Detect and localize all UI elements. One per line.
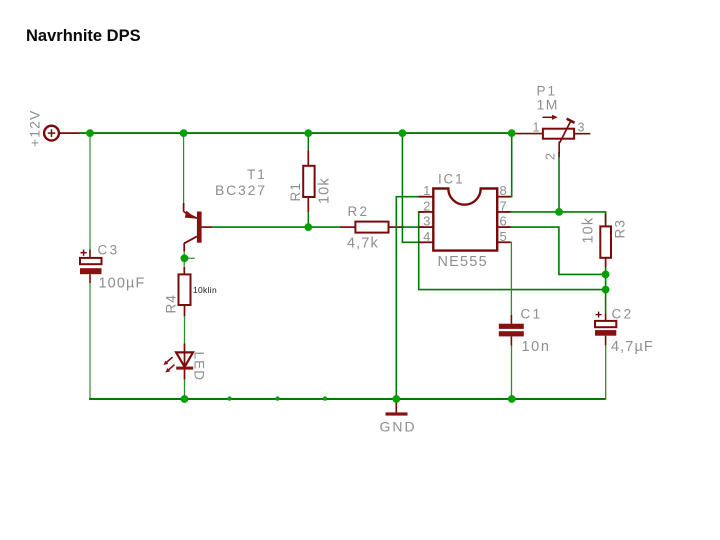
junction base row at R1 <box>304 223 312 231</box>
supply +12V symbol <box>44 126 59 141</box>
svg-text:C3: C3 <box>98 243 120 258</box>
svg-text:LED: LED <box>192 352 207 382</box>
junction bottom rail small a <box>227 396 231 400</box>
C3 pin upper <box>89 250 91 258</box>
wire R3 to node <box>605 267 607 274</box>
svg-text:C2: C2 <box>612 307 634 322</box>
svg-text:1: 1 <box>423 183 431 198</box>
wire C1 to bottom rail <box>511 345 513 399</box>
wire R2 to pin3 <box>404 226 425 228</box>
C2 bottom pin <box>605 336 607 346</box>
wire pot wiper to pin7 row <box>558 152 560 212</box>
wire collector to R4 <box>183 252 185 267</box>
IC1 pin 6 stub <box>497 226 510 228</box>
capacitor C1 <box>499 324 524 337</box>
resistor R1 <box>303 166 314 197</box>
C2 top pin <box>605 314 607 321</box>
svg-text:R4: R4 <box>164 294 179 313</box>
R4 upper pin <box>183 267 185 275</box>
diode LED <box>163 352 193 372</box>
svg-text:10k: 10k <box>581 217 597 244</box>
op IC1 NE555 body <box>433 189 497 251</box>
junction collector node <box>181 254 189 262</box>
junction bottom rail at LED <box>181 395 189 403</box>
R1 lower pin <box>307 197 309 212</box>
svg-text:5: 5 <box>500 229 508 244</box>
junction top rail at R1 <box>304 129 312 137</box>
T1 base pin <box>202 226 212 228</box>
wire node to C2 <box>605 274 607 314</box>
junction bottom rail at GND <box>392 395 400 403</box>
junction bottom rail at C1 <box>508 395 516 403</box>
svg-text:2: 2 <box>544 152 558 160</box>
wire stub at collector node <box>185 257 195 259</box>
IC1 pin 8 stub <box>497 196 510 198</box>
P1 pin 3 stub <box>574 133 590 135</box>
wire pin6 to R3 bottom node <box>507 227 606 274</box>
svg-text:10n: 10n <box>522 339 551 355</box>
wire R4 to LED <box>184 316 186 344</box>
supply pin wire <box>59 132 80 134</box>
svg-text:BC327: BC327 <box>215 182 267 198</box>
svg-text:+12V: +12V <box>27 110 43 148</box>
R2 right pin <box>389 226 405 228</box>
wire IC pin1 to GND drop <box>396 197 424 400</box>
svg-text:Navrhnite DPS: Navrhnite DPS <box>26 27 141 45</box>
wire C3 branch upper <box>89 133 91 249</box>
ground symbol GND <box>386 399 408 416</box>
wire C2 to bottom rail <box>605 345 607 400</box>
svg-text:10k: 10k <box>317 177 333 204</box>
svg-text:4,7µF: 4,7µF <box>611 339 654 355</box>
svg-text:10klin: 10klin <box>193 285 217 295</box>
junction pin7 pot node <box>555 208 563 216</box>
resistor R4 <box>179 274 191 305</box>
wire pin7 to R3 top <box>507 212 606 223</box>
R3 top pin <box>605 214 607 227</box>
R4 lower pin <box>184 305 186 317</box>
capacitor C3 <box>80 250 102 275</box>
transistor T1 <box>184 211 202 252</box>
C1 bottom pin <box>510 336 512 345</box>
wire base to R2 <box>212 226 341 228</box>
svg-text:IC1: IC1 <box>438 172 464 187</box>
R3 bottom pin <box>605 258 607 268</box>
junction R3 bottom node <box>602 271 610 279</box>
resistor R2 <box>355 222 388 233</box>
wire bottom rail <box>89 398 606 400</box>
svg-text:1M: 1M <box>537 97 559 113</box>
svg-text:1: 1 <box>532 121 540 135</box>
svg-text:6: 6 <box>500 214 508 229</box>
wire R1 to base row <box>307 212 309 228</box>
junction top rail at pin4 drop <box>399 129 407 137</box>
wire top rail <box>79 132 512 134</box>
resistor R1 upper pin <box>307 151 309 167</box>
capacitor C2 <box>595 312 616 336</box>
svg-text:T1: T1 <box>247 167 267 182</box>
svg-text:3: 3 <box>578 121 586 135</box>
svg-text:NE555: NE555 <box>438 254 488 270</box>
svg-text:R2: R2 <box>348 204 370 219</box>
resistor R3 <box>600 226 611 257</box>
wire pot pin1 from rail <box>512 133 543 135</box>
transistor Q T1 emitter pin <box>183 203 185 212</box>
svg-text:R1: R1 <box>288 182 303 201</box>
IC1 pin 3 stub <box>419 226 434 228</box>
IC1 pin 7 stub <box>497 211 510 213</box>
C1 top pin <box>510 315 512 324</box>
wire T1 emitter branch <box>183 133 185 203</box>
C3 pin lower <box>89 274 91 283</box>
junction top rail at T1 <box>180 129 188 137</box>
svg-text:GND: GND <box>380 419 417 435</box>
IC1 pin 4 stub <box>419 241 434 243</box>
svg-text:C1: C1 <box>521 307 543 322</box>
IC1 pin 2 stub <box>419 211 434 213</box>
svg-text:3: 3 <box>423 214 431 229</box>
junction top rail at P1 <box>508 129 516 137</box>
wire LED to bottom rail <box>184 379 186 399</box>
wire pin2 to timing node <box>419 212 606 290</box>
wire pin5 to C1 <box>507 242 512 314</box>
junction bottom rail small b <box>275 396 279 400</box>
junction top rail at C3 <box>86 129 94 137</box>
svg-text:4: 4 <box>423 229 431 244</box>
wire VCC drop to pin4 <box>402 133 424 242</box>
junction C2 top node <box>602 286 610 294</box>
IC1 pin 5 stub <box>497 241 510 243</box>
IC1 pin 1 stub <box>419 196 434 198</box>
wire C3 branch lower <box>89 283 91 400</box>
svg-text:100µF: 100µF <box>99 276 146 292</box>
LED bottom pin <box>184 370 186 380</box>
R1 pin upper wire <box>307 133 309 151</box>
svg-text:R3: R3 <box>613 219 628 238</box>
svg-text:7: 7 <box>500 198 508 213</box>
P1 pin 2 stub <box>558 142 560 158</box>
svg-text:2: 2 <box>423 198 431 213</box>
LED top pin <box>184 344 186 367</box>
potentiometer P1 <box>543 115 575 143</box>
resistor R2 left pin <box>340 226 356 228</box>
svg-text:8: 8 <box>500 183 508 198</box>
junction bottom rail small c <box>323 396 327 400</box>
wire pin8 to VCC rail <box>507 133 512 197</box>
svg-text:4,7k: 4,7k <box>347 236 379 252</box>
